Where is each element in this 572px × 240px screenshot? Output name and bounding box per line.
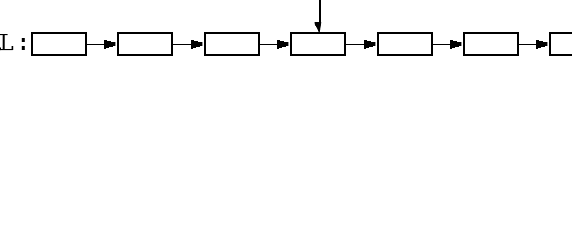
wire arrow node4 to node5: [346, 40, 375, 49]
node box 3: [205, 33, 259, 55]
node box 6: [464, 33, 518, 55]
wire arrow node1 to node2: [87, 40, 115, 49]
colon: [22, 38, 25, 50]
label L: [0, 34, 13, 50]
node box 2: [118, 33, 172, 55]
wire arrow node2 to node3: [173, 40, 202, 49]
pointer arrow into node 4: [315, 0, 322, 32]
wire arrow node5 to node6: [433, 40, 461, 49]
wire arrow node6 to node7: [519, 40, 547, 49]
node box 1: [32, 33, 86, 55]
node box 4: [291, 33, 345, 55]
node box 7 (clipped at right edge): [550, 33, 572, 55]
node box 5: [378, 33, 432, 55]
wire arrow node3 to node4: [260, 40, 288, 49]
